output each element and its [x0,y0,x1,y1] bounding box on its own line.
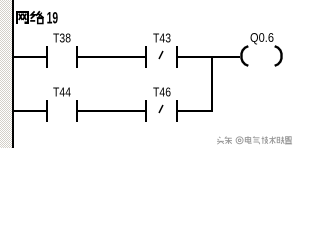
T44 left bar [46,100,48,122]
wire T46 to junction [178,110,213,112]
coil parentheses [242,46,282,66]
T43 left bar [145,46,147,68]
T43 right bar [176,46,178,68]
char 术 [269,136,275,144]
char 气 [253,136,260,144]
svg-text:T43: T43 [153,30,171,45]
contact T43 (normally closed) [145,30,178,68]
char 网 [16,11,29,24]
wire rail to T44 [14,110,46,112]
contact T44 (normally open) [46,84,78,122]
T38 left bar [46,46,48,68]
wire T43 to coil (through junction) [178,56,240,58]
svg-text:19: 19 [47,9,59,28]
char 头 [217,137,224,144]
T38 right bar [76,46,78,68]
left power rail [12,0,14,148]
wire rail to T38 [14,56,46,58]
coil Q0.6 [242,31,282,66]
network title "网络 19" [16,9,58,28]
char 络 [30,11,44,23]
svg-text:T44: T44 [53,84,71,99]
junction vertical wire [211,56,213,112]
char 盟 [285,137,292,144]
char 条 [225,137,232,144]
char 联 [277,137,284,144]
wire T44 to T46 [78,110,145,112]
svg-text:T46: T46 [153,84,171,99]
contact T38 (normally open) [46,30,78,68]
wire T38 to T43 [78,56,145,58]
watermark 头条 @电气技术联盟 [217,136,292,144]
left margin dithered gutter [0,0,12,148]
T46 NC slash [159,105,163,113]
svg-text:T38: T38 [53,30,71,45]
T46 right bar [176,100,178,122]
contact T46 (normally closed) [145,84,178,122]
T44 right bar [76,100,78,122]
svg-text:Q0.6: Q0.6 [250,31,274,45]
char 技 [262,136,268,143]
char 电 [245,136,251,143]
@ sign [236,137,243,144]
T43 NC slash [159,51,163,59]
T46 left bar [145,100,147,122]
